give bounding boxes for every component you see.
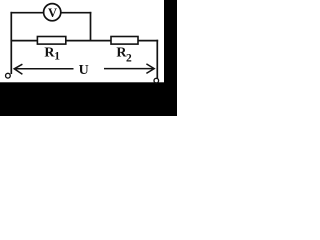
- svg-text:U: U: [79, 63, 89, 78]
- svg-text:1: 1: [54, 51, 60, 63]
- svg-text:2: 2: [126, 52, 132, 64]
- svg-text:V: V: [48, 6, 57, 20]
